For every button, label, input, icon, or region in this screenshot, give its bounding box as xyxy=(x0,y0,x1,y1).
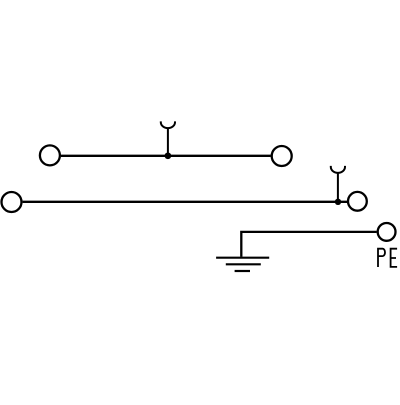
terminal circle (clamp point, W1 left) xyxy=(40,145,60,165)
terminal circle (clamp point, W2 right) xyxy=(348,192,367,211)
junction dot on W2 xyxy=(335,199,341,205)
terminal circle (clamp point, W1 right) xyxy=(272,146,292,166)
test socket tap on W2 xyxy=(331,166,345,202)
ground (earth) symbol xyxy=(216,258,269,271)
terminal circle (PE clamp point) xyxy=(378,223,396,241)
label PE xyxy=(378,249,397,267)
junction dot on W1 xyxy=(165,152,172,159)
terminal circle (clamp point, W2 left) xyxy=(2,192,22,212)
wire PE (L-shaped conductor to earth) xyxy=(241,232,376,257)
wire W1 (upper feed-through conductor) xyxy=(61,155,271,157)
test socket tap on W1 xyxy=(161,121,175,155)
wire W2 (middle feed-through conductor) xyxy=(23,201,347,203)
